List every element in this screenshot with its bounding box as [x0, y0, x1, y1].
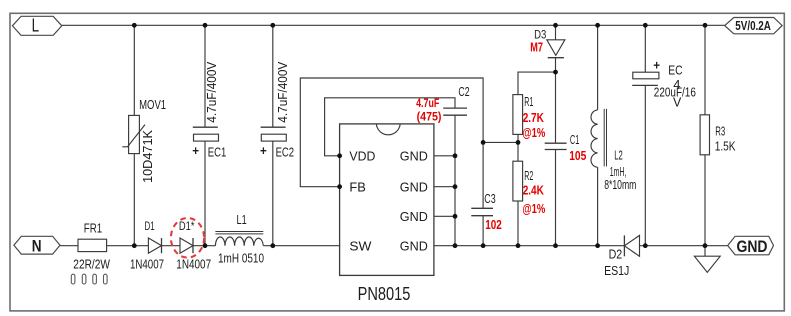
svg-text:1mH,: 1mH, — [610, 165, 627, 179]
terminal L — [12, 16, 61, 36]
svg-text:C1: C1 — [570, 133, 580, 147]
svg-text:(475): (475) — [417, 112, 442, 124]
svg-text:C3: C3 — [484, 192, 495, 206]
resistor R1 — [513, 95, 546, 140]
capacitor C2 — [416, 85, 470, 124]
svg-text:ES1J: ES1J — [604, 263, 629, 278]
capacitor C1 — [545, 133, 587, 163]
wire C2 bottom to GND bus — [454, 115, 456, 246]
wire EC column — [644, 25, 646, 245]
fuse pads — [71, 274, 107, 284]
node R3-GND — [703, 243, 708, 248]
svg-text:EC1: EC1 — [208, 145, 227, 160]
svg-text:1mH 0510: 1mH 0510 — [218, 252, 264, 266]
capacitor EC — [632, 58, 696, 110]
node top-R3 — [703, 23, 708, 28]
svg-text:FB: FB — [349, 180, 366, 195]
svg-text:D1*: D1* — [179, 219, 195, 233]
wire bottom rail N to FR1 — [60, 245, 78, 247]
svg-text:1N4007: 1N4007 — [130, 258, 164, 272]
svg-text:@1%: @1% — [522, 125, 545, 140]
svg-text:C2: C2 — [458, 85, 469, 99]
svg-text:102: 102 — [485, 218, 502, 232]
svg-text:GND: GND — [737, 237, 768, 256]
node bus-GND3 — [453, 214, 458, 219]
svg-text:GND: GND — [400, 180, 428, 195]
node L-EC2 — [270, 23, 275, 28]
wire D3 cathode to R1 top — [518, 72, 556, 95]
node top-D3 — [553, 23, 558, 28]
wire FR1 to D1 — [107, 245, 149, 247]
svg-text:L1: L1 — [237, 213, 247, 227]
node R2-rail — [516, 243, 521, 248]
svg-text:MOV1: MOV1 — [139, 97, 166, 112]
node L-MOV1 — [132, 23, 137, 28]
svg-text:V: V — [673, 96, 682, 110]
terminal GND — [728, 236, 774, 256]
svg-text:GND: GND — [400, 238, 428, 253]
wire EC2 column — [272, 25, 274, 245]
node VDD pin — [337, 153, 342, 158]
node L1-EC2 — [270, 243, 275, 248]
svg-text:105: 105 — [569, 149, 586, 163]
svg-text:4.7uF: 4.7uF — [416, 98, 439, 110]
wire R3 column — [704, 25, 706, 256]
wire D2 to GND terminal — [640, 245, 728, 247]
wire GND pin stubs — [434, 156, 455, 246]
node top-L2 — [595, 23, 600, 28]
svg-text:8*10mm: 8*10mm — [604, 178, 636, 192]
wire L1 to SW pin — [263, 245, 339, 247]
node bus-rail — [453, 243, 458, 248]
capacitor EC1 — [192, 127, 226, 160]
svg-text:EC2: EC2 — [276, 145, 295, 160]
node D2-EC — [643, 243, 648, 248]
svg-text:GND: GND — [400, 148, 428, 163]
node C3-rail — [481, 243, 486, 248]
svg-text:FR1: FR1 — [84, 220, 102, 235]
resistor R2 — [513, 161, 546, 216]
svg-text:10D471K: 10D471K — [141, 129, 155, 183]
svg-text:1N4007: 1N4007 — [176, 258, 211, 272]
wire C3 bottom to GND rail — [482, 216, 484, 246]
wire D1 to D1* — [162, 245, 181, 247]
diode D1* — [176, 219, 211, 272]
svg-text:2.4K: 2.4K — [523, 183, 545, 198]
terminal N — [14, 236, 60, 255]
svg-text:D3: D3 — [534, 27, 546, 41]
ground — [694, 256, 720, 272]
op-amp U1 PN8015 — [340, 124, 434, 304]
svg-text:R1: R1 — [524, 95, 533, 109]
svg-text:4.7uF/400V: 4.7uF/400V — [205, 61, 219, 123]
wire R1 to R2 — [517, 134, 519, 161]
wire D3 column / C1 column — [555, 25, 557, 245]
capacitor C3 — [471, 192, 501, 232]
wire FB loop — [300, 78, 483, 208]
wire VDD loop — [325, 98, 455, 156]
wire FB divider tap — [483, 141, 518, 143]
node N-MOV1 — [132, 243, 137, 248]
svg-text:R3: R3 — [715, 125, 725, 139]
svg-text:L: L — [32, 16, 39, 36]
node FB pin — [337, 184, 342, 189]
wire MOV1 column — [133, 25, 135, 245]
svg-text:5V/0.2A: 5V/0.2A — [735, 18, 771, 33]
svg-text:SW: SW — [349, 238, 372, 253]
svg-text:EC: EC — [668, 63, 682, 78]
terminal 5V/0.2A — [725, 18, 783, 34]
node top-EC — [643, 23, 648, 28]
inductor L1 — [215, 213, 264, 266]
svg-text:L2: L2 — [614, 149, 623, 163]
varistor MOV1 — [122, 97, 166, 154]
diode D2 — [604, 235, 639, 278]
wire R2 bottom to GND rail — [517, 201, 519, 246]
capacitor EC2 — [260, 127, 294, 160]
svg-text:+: + — [192, 143, 199, 158]
svg-text:4.7uF/400V: 4.7uF/400V — [276, 61, 290, 123]
node D3-R1 — [553, 70, 558, 75]
svg-text:+: + — [260, 143, 267, 158]
node R1-R2 — [516, 140, 521, 145]
highlight ellipse around D1* — [171, 218, 204, 258]
diode D3 — [530, 27, 565, 57]
node FB-tap — [481, 140, 486, 145]
svg-text:1.5K: 1.5K — [715, 140, 736, 154]
svg-text:2.7K: 2.7K — [523, 110, 545, 125]
svg-text:+: + — [653, 58, 660, 73]
diode D1 — [130, 219, 164, 272]
svg-text:@1%: @1% — [522, 201, 545, 216]
inductor L2 — [591, 109, 636, 192]
resistor R3 — [700, 115, 736, 155]
svg-text:22R/2W: 22R/2W — [73, 257, 110, 271]
node C1-rail — [553, 243, 558, 248]
wire L2 column — [597, 25, 599, 245]
node L2-rail — [595, 243, 600, 248]
wire D1* to L1 — [193, 245, 215, 247]
node L-EC1 — [203, 23, 208, 28]
node bus-GND2 — [453, 184, 458, 189]
svg-text:D2: D2 — [609, 248, 623, 262]
svg-text:M7: M7 — [530, 41, 543, 55]
wire top rail L to 5V — [62, 24, 725, 26]
node D1*-EC1 — [203, 243, 208, 248]
node bus-GND1 — [453, 153, 458, 158]
svg-text:PN8015: PN8015 — [358, 284, 411, 304]
svg-text:N: N — [32, 236, 42, 255]
resistor FR1 — [73, 220, 110, 271]
wire GND bus to D2 — [455, 245, 624, 247]
svg-text:VDD: VDD — [349, 148, 375, 163]
wire EC1 column — [204, 25, 206, 245]
svg-text:R2: R2 — [524, 169, 533, 183]
svg-text:GND: GND — [400, 209, 428, 224]
svg-text:D1: D1 — [145, 219, 155, 233]
